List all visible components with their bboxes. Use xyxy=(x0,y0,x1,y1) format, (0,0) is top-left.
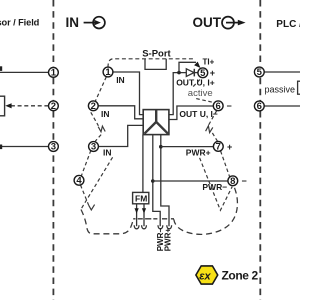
PWR- rail from isolator xyxy=(153,135,160,227)
svg-text:2: 2 xyxy=(91,101,96,112)
svg-text:6: 6 xyxy=(257,101,262,112)
terminal module 3 xyxy=(89,142,99,153)
field wire to terminal 1 xyxy=(0,71,49,73)
dashed shield wire to bus xyxy=(81,157,112,209)
dashed wire below terminal 4 xyxy=(81,185,89,205)
svg-text:5: 5 xyxy=(257,67,263,78)
svg-text:TI+: TI+ xyxy=(203,57,215,66)
wire PWR- to module terminal 8 xyxy=(153,180,228,182)
terminal field 3 xyxy=(49,142,59,153)
svg-text:4: 4 xyxy=(76,176,82,187)
dashed bus line left xyxy=(81,210,134,234)
wire OUT+ riser from isolator to diode xyxy=(169,73,186,115)
svg-text:S-Port: S-Port xyxy=(142,49,171,60)
isolator Y symbol xyxy=(144,110,168,134)
PLC wire from terminal 6 xyxy=(264,105,300,107)
dashed bus arc from terminal 8 xyxy=(174,188,238,235)
terminal module 2 xyxy=(88,101,98,112)
svg-text:PLC / DCS: PLC / DCS xyxy=(276,19,300,30)
terminal module 8 xyxy=(228,176,238,187)
cut-off mark left edge row 1 xyxy=(0,66,2,71)
dashed option wire 2-3 lower xyxy=(95,135,101,142)
DIN rail bus socket FM right xyxy=(142,225,147,229)
terminal module 4 xyxy=(74,175,84,186)
DIN rail bus socket PWR+ xyxy=(167,225,172,229)
terminal field 2 xyxy=(49,101,59,112)
svg-text:5: 5 xyxy=(200,68,206,79)
svg-text:OUT: OUT xyxy=(193,15,222,30)
terminal module 5 xyxy=(198,68,208,79)
svg-text:OUT U, I+: OUT U, I+ xyxy=(176,77,215,87)
arrowhead into field device xyxy=(5,103,11,108)
wire module terminal 3 to isolator xyxy=(98,125,143,146)
svg-text:8: 8 xyxy=(230,176,235,187)
zigzag break mark 2-3 xyxy=(98,126,105,132)
svg-text:IN: IN xyxy=(116,75,125,85)
svg-text:passive: passive xyxy=(265,85,296,95)
svg-text:Zone 2: Zone 2 xyxy=(222,268,259,282)
terminal PLC 6 xyxy=(254,101,264,112)
wire OUT- from isolator to module terminal 6 xyxy=(169,106,213,120)
dashed option wire 1-2 xyxy=(95,77,106,102)
zigzag break mark 6-7 xyxy=(206,126,213,133)
svg-text:FM: FM xyxy=(135,194,147,204)
svg-text:1: 1 xyxy=(51,68,57,79)
dashed option wire 6-7 upper xyxy=(208,111,217,127)
svg-text:PWR+: PWR+ xyxy=(186,148,211,158)
node junction TI+ tap xyxy=(177,71,181,75)
node junction PWR+ xyxy=(159,145,163,149)
dashed option wire 5-6 lower xyxy=(196,99,214,103)
dashed bus line raised segment xyxy=(133,218,174,220)
DIN rail bus socket FM left xyxy=(134,225,139,229)
node junction PWR- xyxy=(151,179,155,183)
svg-text:3: 3 xyxy=(51,142,56,153)
cut-off mark left edge row 3 xyxy=(0,145,2,150)
PLC device box (cut off at right edge) xyxy=(298,81,310,94)
DIN rail bus socket PWR- xyxy=(158,225,163,229)
svg-text:+: + xyxy=(227,142,232,152)
dashed option wire 3-4 xyxy=(81,150,91,176)
PWR+ rail from isolator xyxy=(161,135,169,227)
svg-text:Sensor / Field: Sensor / Field xyxy=(0,18,40,28)
wire module terminal 1 to isolator xyxy=(113,72,143,115)
isolator symbol box xyxy=(143,110,169,135)
svg-text:εx: εx xyxy=(199,271,211,283)
FM box xyxy=(133,192,149,203)
svg-text:active: active xyxy=(188,88,213,99)
Ex hexagon xyxy=(196,266,218,284)
dashed option wire 6-7 lower xyxy=(212,133,217,142)
svg-text:IN: IN xyxy=(66,15,80,30)
dashed option wire 5-6 upper xyxy=(192,80,200,89)
wire PWR+ to module terminal 7 xyxy=(161,146,214,148)
zone boundary PLC (right dashed line) xyxy=(259,0,261,300)
terminal module 7 xyxy=(213,142,223,153)
wire module terminal 2 to isolator xyxy=(98,106,143,119)
svg-text:3: 3 xyxy=(91,142,96,153)
arrowhead FM right xyxy=(142,208,146,213)
dashed check wire to terminal 8 xyxy=(200,158,233,211)
terminal module 6 xyxy=(213,101,223,112)
S-Port dashed link from terminal 1 wire xyxy=(108,59,194,68)
terminal PLC 5 xyxy=(254,67,264,78)
FM output lines with arrows xyxy=(137,204,144,226)
svg-text:6: 6 xyxy=(216,101,221,112)
svg-text:OUT U, I−: OUT U, I− xyxy=(179,109,218,119)
svg-text:2: 2 xyxy=(51,101,56,112)
wire FM connection xyxy=(142,135,144,193)
PLC wire from terminal 5 xyxy=(264,71,300,73)
dashed option wire 2-3 upper xyxy=(91,112,99,126)
svg-text:PWR−: PWR− xyxy=(202,182,227,192)
field device box (cut off at left edge) xyxy=(0,96,5,116)
tick mark below terminal 4 xyxy=(89,205,95,210)
field wire to terminal 3 xyxy=(0,146,49,148)
svg-text:7: 7 xyxy=(216,142,221,153)
svg-text:−: − xyxy=(242,176,247,186)
diode D1 xyxy=(186,69,194,77)
svg-text:PWR+: PWR+ xyxy=(164,228,173,252)
wire TI+ test tap xyxy=(179,62,196,72)
terminal module 1 xyxy=(103,67,113,78)
dashed option wire 7-8 xyxy=(221,151,230,177)
arrowhead FM left xyxy=(135,208,139,213)
S-Port connector bracket xyxy=(145,59,166,70)
wire diode to module terminal 5 xyxy=(194,72,198,74)
icon signal-in (arrow into circle) xyxy=(84,17,105,29)
icon signal-out (arrow out of circle) xyxy=(222,17,246,29)
zone boundary Sensor/Field (left dashed line) xyxy=(52,0,54,300)
svg-text:1: 1 xyxy=(105,67,111,78)
dashed wire terminal 2 to field device xyxy=(12,105,49,107)
svg-text:IN: IN xyxy=(103,147,112,157)
svg-text:−: − xyxy=(227,101,232,111)
terminal field 1 xyxy=(49,68,59,79)
arrowhead S-Port probe at terminal 5 xyxy=(194,62,200,68)
svg-text:IN: IN xyxy=(101,109,110,119)
